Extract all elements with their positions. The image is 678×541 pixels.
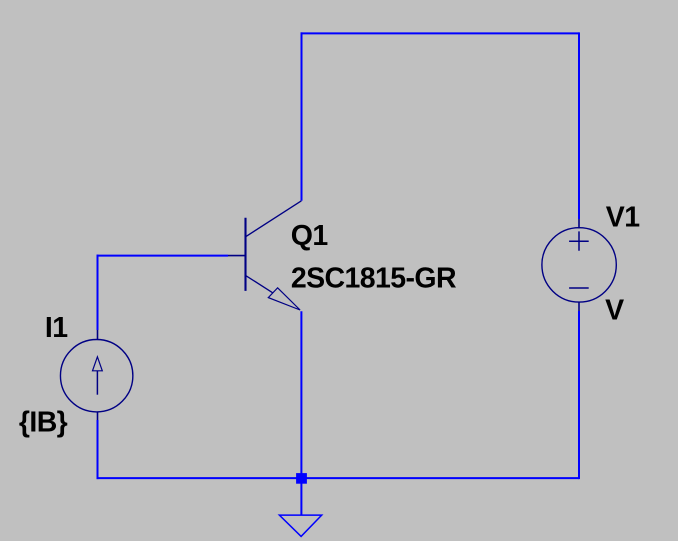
V1 circle [542,228,616,302]
wire left vertical to I1 top pin [97,255,99,330]
I1 circle [60,340,132,412]
wire base horizontal [97,255,228,257]
Q1 emitter arrow [268,288,300,310]
wire right lower V1 bottom pin to rail [578,311,580,479]
voltage source V1 [542,219,616,311]
wire top rail [301,32,580,34]
Q1 emitter diagonal [246,275,273,293]
ground [279,515,321,536]
Q1 collector diagonal [246,201,302,237]
svg-text:2SC1815-GR: 2SC1815-GR [291,263,456,295]
wire emitter vertical to rail [300,311,302,478]
wire collector vertical [301,32,303,200]
wire bottom rail [97,477,580,479]
V1 top pin [578,219,580,229]
V1 bottom pin [578,302,580,312]
svg-text:{IB}: {IB} [19,406,68,438]
V1 plus sign [569,231,589,250]
Q1 base bar [244,218,246,291]
wire ground stub [300,478,302,515]
transistor Q1 [228,201,301,310]
node junction square [296,473,307,484]
svg-text:I1: I1 [45,312,68,344]
I1 top pin [97,330,99,340]
svg-text:V: V [605,295,624,327]
Q1 base lead [228,255,246,257]
wire right upper to V1 top pin [578,32,580,219]
I1 arrow head [93,357,103,371]
current source I1 [60,330,132,420]
I1 arrow shaft [96,371,98,395]
I1 bottom pin [97,412,99,421]
wire I1 bottom pin to rail [97,420,99,479]
V1 minus sign [569,287,589,289]
svg-text:Q1: Q1 [291,220,329,252]
svg-text:V1: V1 [606,201,640,233]
